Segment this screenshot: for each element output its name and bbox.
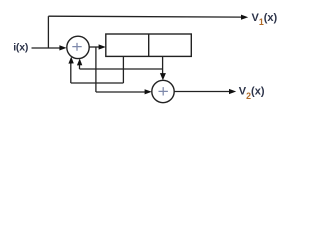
- arrowhead into adder U2 left: [145, 89, 152, 94]
- wire cell2 tap up into adder U1: [79, 64, 81, 69]
- wire across to adder U2: [96, 91, 146, 93]
- wire cell2 tap across left (node at 162.6,69): [80, 68, 163, 70]
- wire top systematic line to V1: [48, 15, 241, 18]
- arrowhead into adder U1 bottom-right: [77, 59, 82, 66]
- wire branch up from input node: [47, 16, 49, 48]
- arrowhead into adder U2 top: [160, 73, 166, 80]
- arrowhead to V2(x): [229, 89, 236, 94]
- wire adder U2 output to V2: [174, 91, 230, 93]
- plus sign U1: [72, 43, 81, 51]
- op-amp adder U2 (XOR circle): [152, 80, 174, 102]
- arrowhead to V1(x): [241, 15, 248, 20]
- svg-text:i(x): i(x): [13, 42, 28, 54]
- register box (two cells): [106, 34, 192, 56]
- wire adder U1 output down-tap: [95, 47, 97, 92]
- register divider: [148, 34, 150, 56]
- wire cell1 tap across left: [71, 82, 124, 84]
- wire input from i(x) to adder U1: [32, 47, 61, 49]
- wire cell1 tap up into adder U1: [70, 62, 72, 83]
- wire adder U1 to register box: [89, 46, 100, 48]
- plus sign U2: [159, 87, 168, 95]
- op-amp adder U1 (XOR circle): [67, 36, 89, 58]
- arrowhead into adder U1 bottom-left: [68, 57, 73, 64]
- wire cell1 tap down: [122, 56, 124, 83]
- wire cell2 tap down to adder U2: [162, 56, 164, 74]
- arrowhead into register box: [99, 44, 106, 49]
- arrowhead into adder U1 left: [59, 45, 66, 50]
